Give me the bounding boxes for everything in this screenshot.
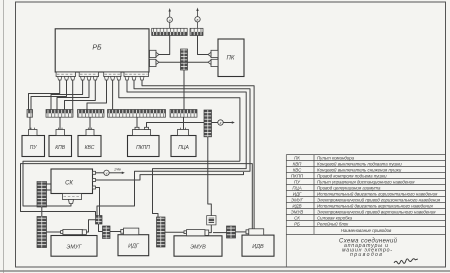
svg-text:РБ: РБ	[294, 221, 300, 226]
svg-text:ПКПП: ПКПП	[291, 173, 304, 178]
svg-text:ИДВ: ИДВ	[252, 244, 264, 250]
svg-text:Пульт управления дистанционног: Пульт управления дистанционного наведени…	[317, 179, 415, 184]
svg-text:КВП: КВП	[293, 161, 303, 166]
svg-text:Привод целеуказания азимута: Привод целеуказания азимута	[317, 185, 381, 190]
svg-text:Привод контроля подъема пушки: Привод контроля подъема пушки	[317, 173, 387, 178]
svg-text:СК: СК	[65, 180, 73, 186]
svg-text:ИДВ: ИДВ	[292, 203, 301, 208]
svg-text:ПК: ПК	[294, 155, 300, 160]
svg-text:ПК: ПК	[227, 56, 235, 62]
svg-text:КВС: КВС	[293, 167, 302, 172]
svg-text:г: г	[220, 121, 222, 125]
svg-text:ЭМУГ: ЭМУГ	[291, 197, 304, 202]
svg-text:РБ: РБ	[92, 45, 102, 52]
svg-text:СК: СК	[294, 215, 300, 220]
svg-text:Силовая коробка: Силовая коробка	[317, 215, 353, 220]
svg-text:Релейный блок: Релейный блок	[317, 221, 349, 226]
svg-text:ИДГ: ИДГ	[128, 244, 140, 250]
svg-text:ПЦА: ПЦА	[178, 145, 189, 151]
svg-text:КВС: КВС	[85, 145, 95, 151]
svg-text:Электромеханический привод вер: Электромеханический привод вертикального…	[317, 209, 436, 214]
svg-text:Исполнительный двигатель гориз: Исполнительный двигатель горизонтального…	[317, 191, 438, 196]
svg-text:Исполнительный двигатель верти: Исполнительный двигатель вертикального н…	[317, 203, 433, 208]
svg-text:в: в	[169, 18, 171, 22]
svg-text:Концевой выключатель подхвата: Концевой выключатель подхвата пушки	[317, 161, 402, 166]
svg-text:ЭМУГ: ЭМУГ	[67, 244, 83, 250]
svg-text:ПУ: ПУ	[294, 179, 301, 184]
svg-text:ПУ: ПУ	[30, 145, 38, 151]
svg-text:ЭМУВ: ЭМУВ	[291, 209, 304, 214]
svg-text:КПВ: КПВ	[55, 145, 66, 151]
svg-text:ИДГ: ИДГ	[293, 191, 302, 196]
svg-text:Пульт командира: Пульт командира	[317, 155, 355, 160]
svg-text:Электромеханический привод гор: Электромеханический привод горизонтально…	[317, 197, 441, 202]
svg-text:v: v	[106, 172, 108, 176]
svg-text:в: в	[197, 18, 199, 22]
svg-text:Концевой выключатель снижения: Концевой выключатель снижения пушки	[317, 167, 402, 172]
svg-text:ПЦА: ПЦА	[292, 185, 301, 190]
svg-text:ПКПП: ПКПП	[136, 145, 150, 151]
svg-text:ЭМУВ: ЭМУВ	[190, 244, 206, 250]
svg-text:приводов: приводов	[350, 252, 382, 258]
svg-text:Наименование приводов: Наименование приводов	[341, 228, 392, 233]
svg-text:24в: 24в	[113, 166, 121, 171]
